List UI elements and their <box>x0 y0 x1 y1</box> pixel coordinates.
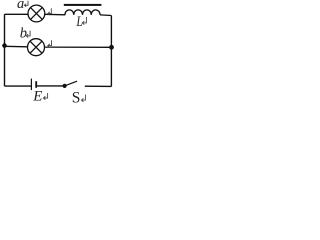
paragraph mark after L <box>82 17 86 25</box>
inductor L coil <box>65 10 100 15</box>
lamp a (circle with X) <box>28 5 45 22</box>
svg-text:L: L <box>76 13 83 30</box>
switch S pivot dot <box>63 84 67 88</box>
wire battery to switch <box>37 85 64 87</box>
battery E short plate <box>35 81 37 88</box>
paragraph mark right of lamp b <box>48 40 52 47</box>
paragraph mark after E <box>43 93 47 100</box>
inductor L core bar <box>64 4 102 6</box>
svg-text:E: E <box>32 89 42 104</box>
switch S blade <box>65 81 77 86</box>
node right junction dot <box>109 45 114 50</box>
svg-text:S: S <box>72 90 81 104</box>
wire middle-right horizontal <box>45 46 112 48</box>
svg-text:b: b <box>20 26 27 42</box>
battery E long plate <box>30 79 32 91</box>
wire bottom-left horizontal <box>5 85 32 87</box>
wire switch to bottom-right corner <box>85 85 112 87</box>
wire right vertical <box>110 16 112 87</box>
wire top-left horizontal <box>5 13 29 15</box>
wire left vertical <box>4 14 6 86</box>
paragraph mark after b <box>26 31 30 38</box>
lamp b (circle with X) <box>28 39 45 56</box>
wire inductor to top-right corner <box>100 14 111 17</box>
paragraph mark right of lamp a <box>48 8 52 15</box>
node left junction dot <box>2 43 7 48</box>
wire lamp a to inductor <box>45 13 65 16</box>
paragraph mark after S <box>81 95 85 102</box>
wire middle-left horizontal <box>5 45 28 48</box>
paragraph mark after a <box>24 1 28 7</box>
svg-text:a: a <box>17 0 24 12</box>
